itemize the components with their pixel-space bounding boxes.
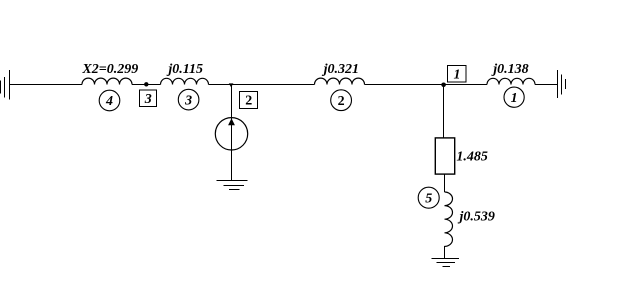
svg-text:1: 1 bbox=[511, 91, 518, 106]
svg-text:X2=0.299: X2=0.299 bbox=[81, 62, 138, 77]
svg-text:1: 1 bbox=[454, 67, 461, 82]
svg-text:j0.539: j0.539 bbox=[458, 210, 495, 225]
svg-text:4: 4 bbox=[105, 94, 113, 109]
svg-text:j0.321: j0.321 bbox=[322, 62, 359, 77]
svg-text:1.485: 1.485 bbox=[456, 149, 488, 164]
svg-text:5: 5 bbox=[425, 191, 432, 206]
svg-text:j0.138: j0.138 bbox=[491, 62, 528, 77]
svg-text:2: 2 bbox=[245, 94, 252, 109]
svg-text:3: 3 bbox=[184, 93, 192, 108]
svg-text:j0.115: j0.115 bbox=[166, 62, 203, 77]
svg-text:3: 3 bbox=[144, 92, 152, 107]
svg-text:2: 2 bbox=[338, 94, 345, 109]
